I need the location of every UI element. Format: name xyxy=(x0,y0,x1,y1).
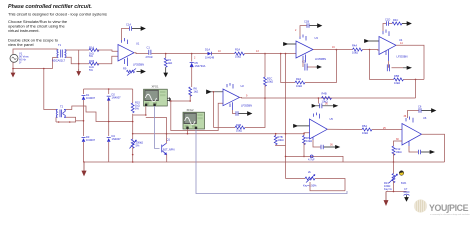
wire V1 top to T1 xyxy=(13,49,57,54)
svg-text:10kΩ: 10kΩ xyxy=(352,51,358,55)
junction center tap xyxy=(78,63,80,65)
bypass cap C1D + R above U4 xyxy=(383,18,411,32)
svg-text:LF353BN: LF353BN xyxy=(241,104,252,108)
wire T1 secondary top to R1A xyxy=(66,49,89,51)
svg-text:Q1: Q1 xyxy=(167,138,171,142)
diode D4 xyxy=(107,134,121,142)
scope wire XFG1 mid terminal down xyxy=(155,106,160,149)
function generator XFG2 xyxy=(183,108,205,129)
svg-text:R5B: R5B xyxy=(394,74,399,78)
wire U3 out to R4A xyxy=(313,49,353,51)
junction after C1 xyxy=(165,53,167,55)
U2 feedback wire left xyxy=(213,92,215,128)
Q1 collector wire up xyxy=(146,118,167,144)
diode D2 xyxy=(107,93,121,101)
svg-text:LF353BN: LF353BN xyxy=(397,55,408,59)
svg-text:LF353BN: LF353BN xyxy=(315,57,326,61)
svg-text:XFG2: XFG2 xyxy=(187,108,195,112)
bypass cap C1B above U3 xyxy=(295,20,322,37)
wire V1 bus down to T2 xyxy=(44,69,56,110)
op-amp U4 xyxy=(379,30,408,62)
svg-text:1N4007: 1N4007 xyxy=(112,137,122,141)
wire zener node right xyxy=(192,53,208,55)
svg-text:10kΩ: 10kΩ xyxy=(396,150,402,154)
svg-text:view the panel: view the panel xyxy=(8,42,34,47)
bypass cap C1C below U3 xyxy=(302,60,321,71)
Q1 emitter wire to bus xyxy=(166,154,168,162)
feedback resistor R5B of U4 xyxy=(370,50,425,99)
measurement probe xyxy=(399,171,404,176)
svg-text:D1A: D1A xyxy=(205,48,210,52)
svg-text:C2: C2 xyxy=(302,60,306,64)
svg-text:a community for electronics de: a community for electronics design and s… xyxy=(430,213,470,216)
svg-text:1N4007: 1N4007 xyxy=(86,96,96,100)
resistor R12 to bus xyxy=(392,141,402,163)
feedback resistor R2B xyxy=(214,98,266,133)
svg-text:NDCA02LT: NDCA02LT xyxy=(52,59,65,63)
wire T2 primary bottom xyxy=(55,117,57,122)
diode D3 xyxy=(82,135,96,142)
junction V1 bottom xyxy=(12,68,14,70)
svg-text:C6: C6 xyxy=(418,105,422,109)
wire R2A to U3 +in xyxy=(245,53,297,55)
resistor R1A xyxy=(89,46,99,59)
op-amp U2 xyxy=(223,83,252,110)
diode D1A horizontal xyxy=(205,48,215,60)
svg-text:R2B: R2B xyxy=(236,123,241,127)
svg-text:This circuit is designed for c: This circuit is designed for closed - lo… xyxy=(8,12,107,17)
resistor R3 to ground xyxy=(164,54,172,77)
capacitor C1 xyxy=(146,46,154,60)
resistor R4A xyxy=(352,44,363,55)
ground below R13 xyxy=(384,192,388,206)
bypass cap C1F below U6 xyxy=(396,138,434,154)
svg-text:R2A: R2A xyxy=(235,48,240,52)
wire U1 out to C1 xyxy=(134,52,148,55)
svg-text:10kΩ: 10kΩ xyxy=(362,131,368,135)
svg-text:R5A: R5A xyxy=(362,124,367,128)
wire T1 secondary bottom to R1B xyxy=(66,57,89,63)
wire U2 +in detour to XFG1 output xyxy=(171,101,223,131)
pot R_B on column xyxy=(130,139,144,163)
offset pot under U1 xyxy=(123,67,145,76)
column R5C resistor xyxy=(131,89,140,139)
potentiometer R13 xyxy=(384,162,407,192)
svg-text:BJT_NPN: BJT_NPN xyxy=(163,148,175,152)
signal row to U5 xyxy=(133,133,310,134)
summing node column x285 xyxy=(285,54,287,179)
caps to ground below bus xyxy=(312,97,337,108)
svg-text:0°: 0° xyxy=(19,61,21,65)
scope wire XFG2 right terminal down and right xyxy=(196,129,347,194)
op-amp U6 xyxy=(402,116,427,146)
svg-text:1kΩ: 1kΩ xyxy=(194,90,199,94)
svg-text:270nF: 270nF xyxy=(146,55,154,59)
svg-text:1kΩ: 1kΩ xyxy=(168,61,173,65)
wire R5A to U6 -in xyxy=(372,129,402,131)
bus resistor R4B xyxy=(322,92,332,104)
svg-text:10kΩ: 10kΩ xyxy=(306,139,312,143)
bridge right column xyxy=(108,89,110,162)
wire T2 secondary bottom to bridge mid left xyxy=(56,117,76,122)
resistor R1B xyxy=(89,59,99,72)
resistor R2A xyxy=(235,48,245,59)
bypass cap C1E below U4 xyxy=(387,61,411,71)
bypass cap C1A xyxy=(122,23,146,41)
bypass cap C2A under U2 xyxy=(233,110,252,116)
wire C1 to zener column xyxy=(151,53,191,55)
svg-text:81%: 81% xyxy=(401,181,407,185)
op-amp U5 xyxy=(310,113,334,141)
svg-text:U3: U3 xyxy=(315,36,319,40)
svg-text:C1A: C1A xyxy=(126,23,131,27)
wire D1A to R2A xyxy=(211,53,234,55)
wire XFG1 + output right xyxy=(170,100,172,101)
wire XFG1 left terminal down xyxy=(133,107,146,116)
svg-text:10kΩ: 10kΩ xyxy=(236,129,242,133)
svg-text:1N4007: 1N4007 xyxy=(112,96,122,100)
svg-text:virtual instrument.: virtual instrument. xyxy=(8,28,40,33)
resistor R7 below U5 +in xyxy=(303,133,313,157)
wire R1B to U1 -in xyxy=(97,56,118,64)
feedback resistor R2A2 of U3 xyxy=(280,49,337,88)
resistor R7B hung from row xyxy=(274,133,285,146)
svg-text:C1B: C1B xyxy=(304,20,309,24)
ground arrow at U5 -in xyxy=(294,124,310,127)
bypass cap C5 below U5 xyxy=(313,140,339,149)
svg-text:R4A: R4A xyxy=(352,44,357,48)
bypass cap C6 above U6 xyxy=(404,105,436,119)
potentiometer R10 xyxy=(286,170,346,191)
svg-text:R2A: R2A xyxy=(296,77,301,81)
resistor R5A xyxy=(362,124,372,135)
svg-text:C7: C7 xyxy=(404,187,408,191)
svg-text:YOU∫PICE: YOU∫PICE xyxy=(429,203,469,213)
YOUSPICE logo xyxy=(414,199,470,216)
svg-text:C1D: C1D xyxy=(385,18,390,22)
diode D1 xyxy=(82,93,96,100)
svg-text:4.7uF: 4.7uF xyxy=(308,158,315,162)
svg-text:10kΩ: 10kΩ xyxy=(394,81,400,85)
transformer T2 xyxy=(56,105,66,118)
svg-text:U2: U2 xyxy=(241,84,245,88)
svg-text:XFG1: XFG1 xyxy=(152,85,160,89)
ground center tap xyxy=(77,69,81,75)
wire XFG2 left terminal down to signal xyxy=(187,129,189,134)
capacitor C7 xyxy=(404,187,410,201)
AC source V1 xyxy=(10,52,29,65)
bridge top rail xyxy=(84,88,133,90)
ground arrow at U4 -in xyxy=(365,40,380,43)
svg-text:10kΩ: 10kΩ xyxy=(278,138,284,142)
op-amp U3 xyxy=(296,35,326,63)
wire T1 primary bottom xyxy=(53,58,57,69)
svg-text:Phase controlled rectifier cir: Phase controlled rectifier circuit. xyxy=(8,4,92,10)
wire U5 out to R5A xyxy=(327,128,362,130)
svg-text:C1: C1 xyxy=(147,46,151,50)
wire V1 bottom bus xyxy=(13,62,53,68)
svg-text:10kΩ: 10kΩ xyxy=(296,84,302,88)
resistor R6 xyxy=(171,87,199,102)
zener diode D5 xyxy=(190,53,206,87)
ground below V1 xyxy=(11,69,15,77)
row y156 with cap C8 xyxy=(285,155,343,162)
svg-text:R4C: R4C xyxy=(393,18,398,22)
svg-text:Key=A: Key=A xyxy=(384,187,392,191)
ground bottom bus left xyxy=(82,162,86,177)
svg-text:10kΩ: 10kΩ xyxy=(267,80,273,84)
wire T1 center tap down xyxy=(78,50,80,69)
svg-text:R4B: R4B xyxy=(322,92,327,96)
svg-text:U1: U1 xyxy=(136,42,140,46)
svg-text:1N4148: 1N4148 xyxy=(205,56,215,60)
svg-text:1N4733A: 1N4733A xyxy=(195,64,206,68)
wire U4 out down to feedback xyxy=(396,45,424,79)
op-amp U1 xyxy=(118,38,144,67)
bottom bus wire xyxy=(84,161,445,163)
function generator XFG1 xyxy=(144,85,171,107)
svg-text:10kΩ: 10kΩ xyxy=(235,55,241,59)
transformer T1 xyxy=(52,43,66,63)
wire U2 out bus y97 xyxy=(240,96,416,99)
svg-text:U6: U6 xyxy=(423,116,427,120)
bridge left column xyxy=(83,89,85,162)
svg-text:1N4007: 1N4007 xyxy=(86,138,96,142)
summing resistor R2C column xyxy=(264,53,274,98)
svg-text:LF353BN: LF353BN xyxy=(133,63,144,67)
svg-text:R9: R9 xyxy=(123,67,127,71)
ground arrow at U2 -in xyxy=(207,90,224,94)
ground arrow at U3 -in xyxy=(284,43,297,46)
wire T2 secondary top stepped to bridge mid right xyxy=(66,106,133,122)
wire U6 out down to bus xyxy=(422,134,445,162)
svg-text:U5: U5 xyxy=(330,117,334,121)
transistor Q1 xyxy=(162,138,175,156)
wire R4A to U4 xyxy=(363,49,380,52)
wire R1A to U1 +in xyxy=(97,50,118,51)
